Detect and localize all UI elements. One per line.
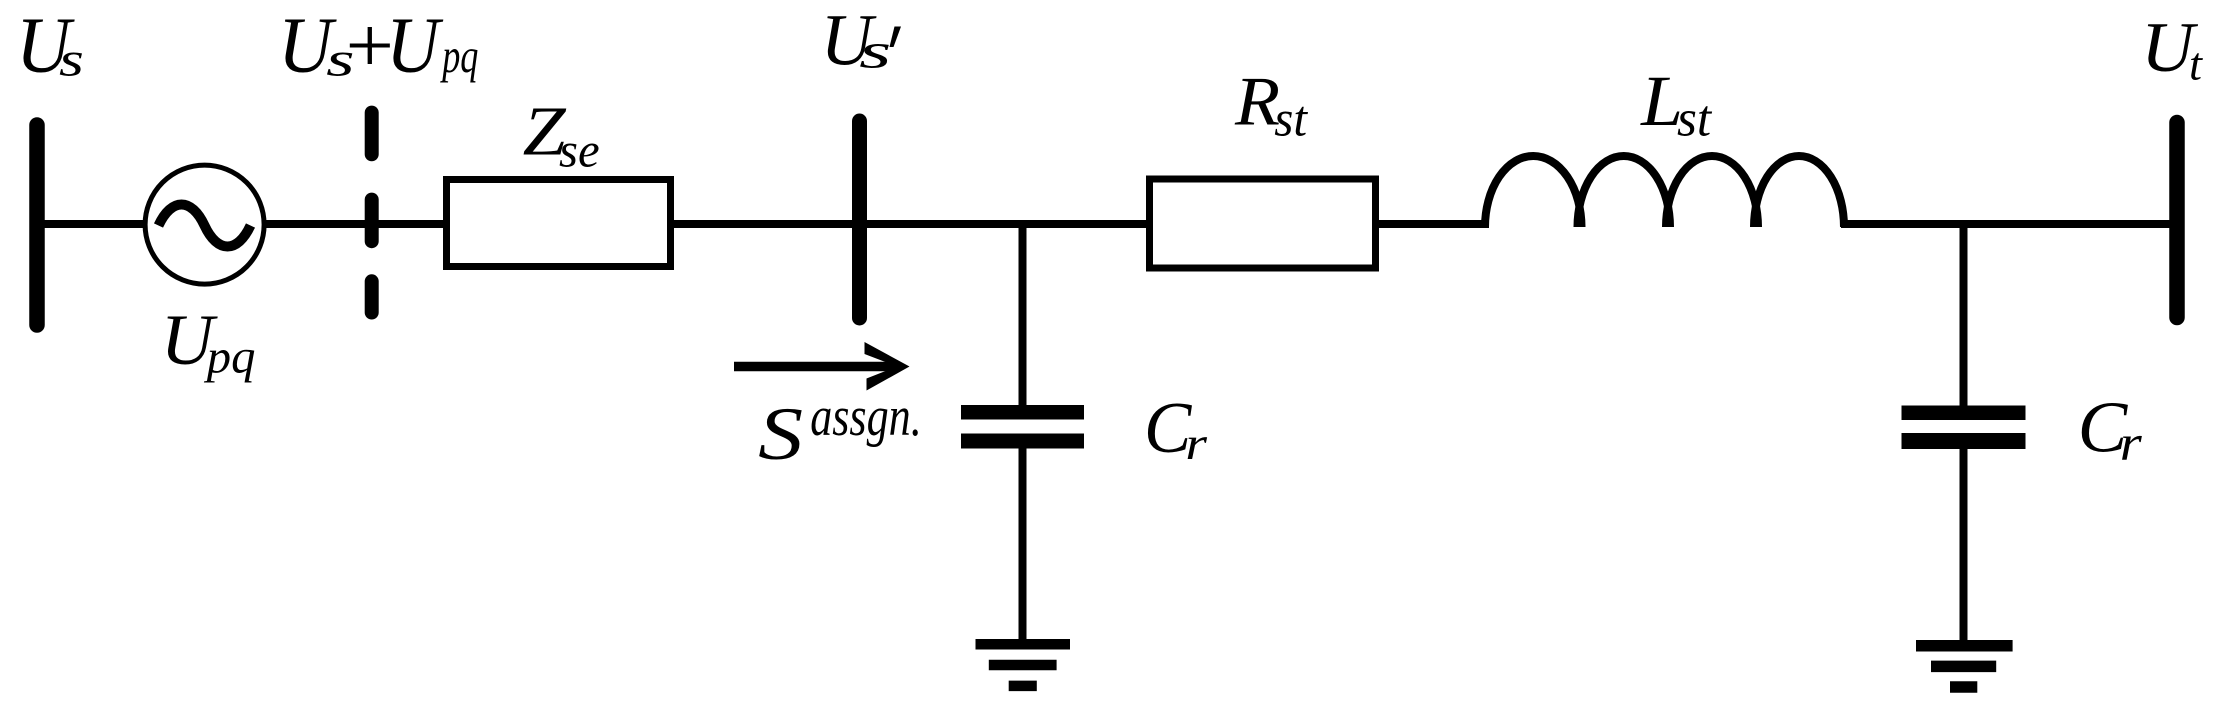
svg-text:S: S — [758, 393, 803, 476]
wire Zse to Rst — [670, 220, 1152, 228]
dashed bus Us+Upq — [365, 113, 379, 313]
impedance Zse (rectangle) — [447, 180, 671, 267]
capacitor Cr (right) plates — [1902, 406, 2026, 450]
label Upq — [161, 300, 256, 383]
label Cr (right) — [2078, 386, 2143, 472]
inductor Lst (4 arcs) — [1485, 156, 1844, 227]
svg-text:pq: pq — [204, 330, 256, 383]
wire Rst to inductor — [1374, 220, 1489, 228]
wire dashed bus to Zse — [372, 220, 448, 228]
ac source Upq circle — [145, 165, 264, 284]
label Zse — [523, 94, 600, 178]
svg-text:assgn.: assgn. — [810, 386, 922, 448]
label Ut — [2141, 9, 2203, 89]
label Lst — [1640, 61, 1712, 148]
label Us+Upq — [278, 1, 478, 90]
wire capacitor to ground (left) — [1019, 446, 1027, 645]
svg-text:R: R — [1234, 62, 1280, 140]
label Rst — [1234, 62, 1309, 147]
label Us' — [821, 0, 901, 81]
ac source sine symbol — [159, 205, 251, 247]
bus Ut — [2169, 123, 2185, 318]
node junction 1 — [1019, 224, 1027, 410]
svg-text:st: st — [1677, 91, 1713, 148]
wire capacitor to ground (right) — [1960, 446, 1968, 646]
node junction 2 — [1960, 224, 1968, 410]
svg-text:st: st — [1274, 92, 1309, 148]
wire inductor to bus Ut — [1841, 220, 2176, 228]
label Us — [16, 1, 84, 89]
resistor Rst (rectangle) — [1150, 179, 1376, 268]
ground (left) — [976, 644, 1071, 686]
svg-text:r: r — [2120, 415, 2143, 472]
label S assgn. — [758, 386, 922, 476]
svg-text:r: r — [1185, 419, 1208, 470]
ground (right) — [1916, 646, 2013, 687]
arrow S assgn. — [734, 342, 910, 391]
bus Us (left source bus) — [29, 125, 45, 325]
capacitor Cr (left) plates — [961, 405, 1084, 449]
wire bus Us to source — [37, 220, 147, 228]
bus Us' — [852, 121, 867, 318]
svg-text:s: s — [59, 34, 84, 87]
label Cr (left) — [1144, 387, 1208, 470]
svg-text:se: se — [559, 123, 600, 177]
svg-text:t: t — [2189, 38, 2203, 89]
wire source to dashed bus — [262, 220, 445, 228]
svg-text:pq: pq — [440, 30, 478, 83]
svg-text:U: U — [386, 1, 443, 89]
svg-text:s: s — [859, 22, 891, 78]
